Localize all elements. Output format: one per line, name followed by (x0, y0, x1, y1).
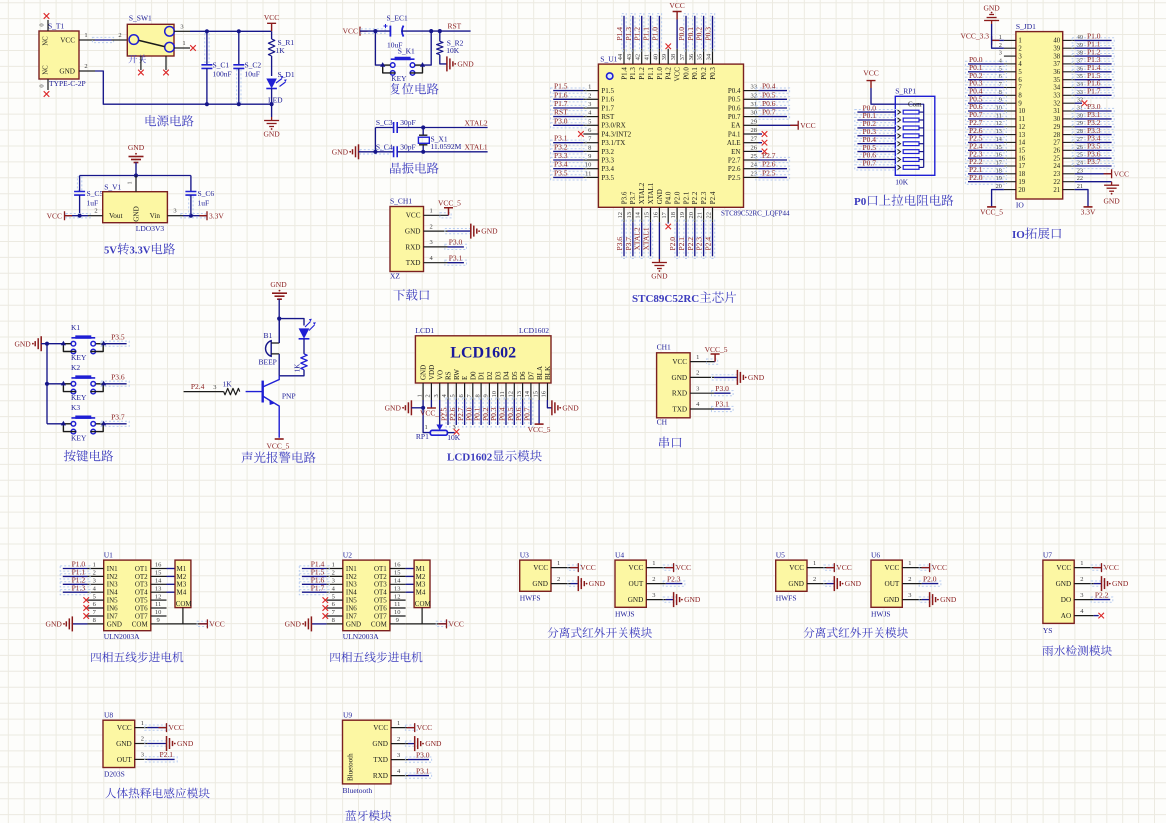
svg-text:GND: GND (128, 143, 145, 152)
download port S_CH1 (390, 207, 424, 272)
svg-text:4: 4 (1018, 61, 1022, 68)
svg-text:P1.6: P1.6 (554, 90, 568, 99)
svg-text:GND: GND (651, 272, 668, 281)
svg-text:2: 2 (430, 223, 433, 230)
svg-text:12: 12 (1018, 124, 1025, 131)
svg-text:P2.6: P2.6 (762, 160, 776, 169)
svg-text:13: 13 (626, 212, 633, 219)
svg-text:VDD: VDD (428, 365, 436, 380)
JD1 left pin 3 (1004, 55, 1016, 57)
svg-text:U8: U8 (104, 711, 113, 720)
svg-text:19: 19 (1018, 179, 1025, 186)
svg-text:2: 2 (84, 63, 87, 70)
svg-text:GND: GND (285, 620, 302, 629)
svg-text:IN2: IN2 (346, 573, 357, 581)
svg-text:P3.6: P3.6 (111, 373, 125, 382)
svg-text:1: 1 (141, 720, 144, 727)
svg-text:Bluetooth: Bluetooth (343, 786, 373, 795)
svg-text:GND: GND (46, 620, 63, 629)
COM wire to VCC (421, 608, 423, 624)
svg-text:VCC: VCC (533, 564, 548, 572)
wire gnd to LDO (135, 163, 137, 176)
svg-text:P2.6: P2.6 (728, 165, 741, 173)
svg-text:1K: 1K (276, 46, 286, 55)
U1 pin 13 OT4 (151, 591, 167, 593)
svg-text:S_C3: S_C3 (376, 118, 393, 127)
svg-text:GND: GND (372, 740, 388, 748)
svg-text:M1: M1 (177, 565, 187, 573)
svg-text:VCC: VCC (169, 723, 184, 732)
svg-text:GND: GND (656, 189, 664, 204)
RP1 resistor 6 net P0.5 (855, 149, 898, 154)
svg-text:Vout: Vout (109, 212, 122, 220)
title 复位电路 (391, 83, 400, 95)
svg-text:P2.1: P2.1 (682, 191, 690, 204)
svg-text:BEEP: BEEP (259, 357, 277, 366)
svg-text:P4.3/INT2: P4.3/INT2 (601, 130, 631, 138)
svg-text:P1.1: P1.1 (642, 27, 651, 41)
svg-text:3: 3 (180, 23, 183, 30)
LCD pin15 BLA VCC_5 flag (538, 400, 540, 424)
svg-text:GND: GND (1112, 579, 1129, 588)
crystal S_X1 11.0592M (422, 128, 424, 136)
main MCU U1 STC89C52RC_LQFP44 (598, 64, 743, 207)
svg-text:5: 5 (588, 118, 591, 125)
chip bottom pin 22 P2.4 (712, 207, 714, 222)
ULN2003A driver (104, 560, 151, 631)
svg-text:15: 15 (155, 570, 162, 577)
svg-text:P3.1: P3.1 (416, 766, 430, 775)
JD1 right pin 24 (1063, 165, 1075, 167)
svg-text:P3.0: P3.0 (416, 750, 430, 759)
electrolytic capacitor S_EC1 10uF (389, 26, 391, 37)
JD1 right pin 28 (1063, 134, 1075, 136)
svg-text:IO: IO (1012, 229, 1025, 241)
chip right pin 25 P2.7 (744, 159, 759, 161)
svg-text:P2.7: P2.7 (762, 151, 776, 160)
svg-text:1: 1 (397, 720, 400, 727)
svg-text:VCC: VCC (343, 27, 358, 36)
U1 pin 11 OT6 (151, 607, 167, 609)
svg-text:P3.1: P3.1 (715, 400, 729, 409)
svg-text:P3.1: P3.1 (554, 134, 568, 143)
svg-text:2: 2 (1080, 576, 1083, 583)
svg-text:IN3: IN3 (107, 581, 118, 589)
svg-text:HWJS: HWJS (615, 610, 635, 619)
svg-text:M4: M4 (416, 589, 426, 597)
svg-text:IN3: IN3 (346, 581, 357, 589)
svg-text:14: 14 (155, 578, 162, 585)
svg-text:P2.0: P2.0 (923, 574, 937, 583)
svg-text:2: 2 (93, 570, 96, 577)
svg-text:8: 8 (332, 617, 335, 624)
svg-text:P1.2: P1.2 (633, 27, 642, 41)
svg-text:P0.7: P0.7 (863, 159, 877, 168)
serial port CH1 (657, 353, 691, 418)
svg-text:1uF: 1uF (198, 199, 210, 208)
U1 pin 10 OT7 (151, 615, 167, 617)
svg-text:P0.3: P0.3 (709, 67, 717, 80)
RP1 resistor 2 net P0.1 (855, 117, 898, 122)
svg-text:P3.6: P3.6 (620, 191, 628, 204)
svg-text:OT1: OT1 (135, 565, 148, 573)
svg-text:VCC: VCC (629, 564, 644, 572)
svg-text:P1.0: P1.0 (650, 27, 659, 41)
JD1 left pin 15 (1004, 149, 1016, 151)
svg-text:3: 3 (93, 578, 96, 585)
svg-text:IN2: IN2 (107, 573, 118, 581)
svg-text:P0.3: P0.3 (704, 27, 713, 41)
svg-text:39: 39 (661, 54, 668, 61)
svg-text:GND: GND (385, 403, 402, 412)
JD1 right pin 33 (1063, 94, 1075, 96)
svg-text:3: 3 (588, 101, 591, 108)
svg-text:1K: 1K (294, 364, 302, 373)
svg-text:P3.0/RX: P3.0/RX (601, 122, 625, 130)
svg-text:IN6: IN6 (107, 604, 118, 612)
bottom rail wire (79, 70, 95, 72)
svg-text:P2.4: P2.4 (704, 237, 713, 251)
svg-text:IN1: IN1 (346, 565, 357, 573)
svg-text:RP1: RP1 (416, 432, 429, 441)
bluetooth module U9 (343, 720, 392, 784)
PIR module U8 D203S (103, 720, 135, 767)
svg-text:OT4: OT4 (374, 589, 387, 597)
JD1 left pin 9 (1004, 102, 1016, 104)
svg-text:37: 37 (1053, 61, 1060, 68)
svg-text:LCD1602: LCD1602 (519, 326, 549, 335)
svg-text:P3.2: P3.2 (601, 148, 614, 156)
svg-text:P3.5: P3.5 (601, 174, 614, 182)
svg-text:3: 3 (1018, 53, 1022, 60)
svg-text:LCD1602: LCD1602 (447, 452, 493, 464)
svg-text:28: 28 (751, 127, 758, 134)
svg-text:P2.5: P2.5 (762, 168, 776, 177)
svg-text:OUT: OUT (629, 580, 644, 588)
wire to LED branch (279, 319, 304, 326)
svg-text:XTAL2: XTAL2 (465, 118, 488, 127)
ULN2003A driver (343, 560, 390, 631)
svg-text:IN7: IN7 (107, 612, 118, 620)
svg-text:35: 35 (697, 54, 704, 61)
svg-text:OT3: OT3 (135, 581, 148, 589)
chip left pin 2 P1.6 (583, 98, 598, 100)
JD1 right pin 35 (1063, 79, 1075, 81)
svg-text:M1: M1 (416, 565, 426, 573)
svg-text:Vin: Vin (150, 212, 161, 220)
svg-text:IN7: IN7 (346, 612, 357, 620)
svg-text:P0.5: P0.5 (762, 90, 776, 99)
svg-text:GND: GND (672, 374, 688, 382)
svg-text:2: 2 (94, 208, 97, 215)
svg-text:YS: YS (1043, 626, 1053, 635)
svg-text:10: 10 (1018, 108, 1025, 115)
svg-text:IN1: IN1 (107, 565, 118, 573)
svg-text:11: 11 (1018, 116, 1025, 123)
wire LED to GND (271, 89, 273, 118)
ground crystal (353, 144, 359, 159)
svg-text:24: 24 (1053, 163, 1060, 170)
svg-text:VCC: VCC (863, 69, 878, 78)
svg-text:XTAL2: XTAL2 (633, 227, 642, 250)
svg-text:S_V1: S_V1 (104, 183, 121, 192)
capacitor S_C2 10uF (237, 70, 241, 102)
chip top pin 41 P1.1 (650, 49, 652, 64)
U2 pin 4 IN4 (327, 591, 343, 593)
svg-text:10K: 10K (446, 46, 460, 55)
chip left pin 5 P3.0/RX (583, 124, 598, 126)
push button K2 (47, 383, 63, 385)
power flag VCC (267, 23, 276, 31)
svg-text:11.0592M: 11.0592M (431, 142, 462, 151)
svg-text:1: 1 (1080, 560, 1083, 567)
svg-text:3: 3 (908, 592, 911, 599)
LCD pin2 VDD VCC_5 flag (430, 400, 432, 408)
svg-text:S_C2: S_C2 (245, 60, 262, 69)
svg-text:P3.7: P3.7 (624, 237, 633, 251)
title 四相五线步进电机 (330, 653, 340, 662)
svg-text:20: 20 (688, 212, 695, 219)
chip bottom pin 12 P3.6 (623, 207, 625, 222)
JD1 right pin 29 (1063, 126, 1075, 128)
svg-text:VCC: VCC (47, 211, 62, 220)
svg-text:P1.5: P1.5 (554, 82, 568, 91)
svg-text:HWJS: HWJS (871, 610, 891, 619)
svg-text:2: 2 (425, 394, 432, 397)
U1 pin 16 OT1 (151, 568, 167, 570)
capacitor S_C6 1uF (189, 197, 193, 214)
svg-text:U3: U3 (520, 551, 529, 560)
svg-text:LCD1: LCD1 (415, 326, 434, 335)
ground reset (447, 56, 453, 71)
svg-text:IN5: IN5 (107, 597, 118, 605)
svg-text:DO: DO (1061, 596, 1071, 604)
svg-text:1: 1 (182, 40, 185, 47)
svg-text:XTAL1: XTAL1 (642, 227, 651, 250)
svg-text:K2: K2 (71, 363, 80, 372)
svg-text:U1: U1 (104, 551, 113, 560)
S_T1 bottom pin 0 no-connect (47, 79, 49, 90)
chip bottom pin 21 P2.3 (703, 207, 705, 222)
svg-text:ULN2003A: ULN2003A (104, 632, 140, 641)
svg-text:P3.1/TX: P3.1/TX (601, 139, 625, 147)
svg-text:9: 9 (156, 617, 159, 624)
motor connector M1-M4 COM (175, 560, 191, 608)
svg-text:25: 25 (1053, 155, 1060, 162)
chip bottom pin 14 XTAL2 (641, 207, 643, 222)
svg-text:5: 5 (332, 593, 335, 600)
title 人体热释电感应模块 (105, 788, 116, 799)
svg-text:OT1: OT1 (374, 565, 387, 573)
svg-text:P1.5: P1.5 (601, 87, 614, 95)
svg-text:VCC: VCC (789, 564, 804, 572)
svg-text:GND: GND (332, 147, 349, 156)
svg-text:14: 14 (1018, 140, 1025, 147)
svg-text:3: 3 (696, 385, 699, 392)
svg-text:RXD: RXD (373, 772, 388, 780)
JD1 left pin 18 (1004, 173, 1016, 175)
svg-text:1: 1 (127, 181, 134, 184)
svg-text:0: 0 (39, 23, 46, 26)
svg-text:VCC: VCC (676, 563, 691, 572)
LCD pin1 GND wire and ground (405, 400, 411, 415)
svg-text:P3.0: P3.0 (449, 238, 463, 247)
svg-text:P3.5: P3.5 (554, 168, 568, 177)
svg-text:3.3V: 3.3V (130, 246, 151, 257)
U1 pin 2 IN2 (88, 575, 104, 577)
svg-text:S_SW1: S_SW1 (129, 14, 152, 23)
svg-text:IO: IO (1016, 201, 1024, 210)
chip left pin 11 P3.5 (583, 176, 598, 178)
svg-text:36: 36 (1053, 69, 1060, 76)
svg-text:35: 35 (1053, 77, 1060, 84)
JD1 left pin 16 (1004, 157, 1016, 159)
svg-text:1: 1 (696, 354, 699, 361)
IO expansion header S_JD1 (1016, 32, 1063, 199)
JD1 right pin 22 (1063, 181, 1075, 183)
svg-text:S_C1: S_C1 (213, 60, 230, 69)
svg-text:P0.1: P0.1 (686, 27, 695, 41)
svg-text:GND: GND (1103, 197, 1120, 206)
JD1 right pin 26 (1063, 149, 1075, 151)
svg-text:VCC_5: VCC_5 (705, 345, 728, 354)
svg-text:18: 18 (670, 212, 677, 219)
svg-text:S_C4: S_C4 (376, 142, 393, 151)
svg-text:XTAL1: XTAL1 (465, 143, 488, 152)
svg-text:VCC: VCC (449, 620, 464, 629)
svg-text:VCC: VCC (406, 212, 421, 220)
JD1 left pin 13 (1004, 134, 1016, 136)
chip left pin 3 P1.7 (583, 107, 598, 109)
chip bottom pin 15 XTAL1 (650, 207, 652, 222)
svg-text:2: 2 (141, 736, 144, 743)
svg-text:VO: VO (436, 370, 444, 380)
chip left pin 9 P3.3 (583, 159, 598, 161)
svg-text:LDO3V3: LDO3V3 (136, 224, 165, 233)
svg-text:1: 1 (652, 560, 655, 567)
svg-text:10K: 10K (895, 178, 909, 187)
svg-text:P1.6: P1.6 (601, 96, 614, 104)
svg-text:38: 38 (670, 54, 677, 61)
chip top pin 39 P4.2 (667, 49, 669, 64)
svg-text:33: 33 (1053, 93, 1060, 100)
svg-text:VCC: VCC (1104, 563, 1119, 572)
svg-text:9: 9 (396, 617, 399, 624)
chip top pin 40 P1.0 (658, 49, 660, 64)
svg-text:RXD: RXD (672, 390, 687, 398)
svg-text:16: 16 (155, 562, 162, 569)
svg-text:EN: EN (731, 148, 740, 156)
switch bottom pins no-connect (140, 56, 142, 70)
svg-text:23: 23 (1053, 171, 1060, 178)
chip right pin 31 P0.6 (744, 107, 759, 109)
chip right pin 32 P0.5 (744, 98, 759, 100)
U1 pin 14 OT3 (151, 583, 167, 585)
svg-text:13: 13 (516, 391, 523, 398)
svg-text:5: 5 (1018, 69, 1022, 76)
svg-text:P1.7: P1.7 (1087, 87, 1101, 96)
COM wire to VCC (182, 608, 184, 624)
svg-text:P0: P0 (854, 196, 867, 208)
svg-text:0: 0 (39, 84, 46, 87)
svg-text:VCC: VCC (885, 564, 900, 572)
svg-text:S_C5: S_C5 (87, 189, 104, 198)
svg-text:29: 29 (1053, 124, 1060, 131)
svg-text:P0.1: P0.1 (691, 67, 699, 80)
JD1 left pin 20 (1004, 189, 1016, 191)
svg-text:34: 34 (706, 53, 713, 60)
svg-text:ULN2003A: ULN2003A (343, 632, 379, 641)
title 按键电路 (64, 450, 76, 462)
JD1 right pin 27 (1063, 141, 1075, 143)
U2 pin 6 IN6 (327, 607, 343, 609)
JD1 right pin 32 (1063, 102, 1075, 104)
svg-text:GND: GND (845, 579, 862, 588)
svg-text:RST: RST (554, 108, 568, 117)
svg-text:GND: GND (14, 339, 31, 348)
U1 pin 1 IN1 (88, 568, 104, 570)
svg-text:9: 9 (1018, 100, 1022, 107)
title 四相五线步进电机 (91, 653, 101, 662)
RP1 resistor 1 net P0.0 (855, 110, 898, 115)
title 蓝牙模块 (346, 810, 357, 820)
svg-text:P2.3: P2.3 (667, 574, 681, 583)
svg-text:11: 11 (499, 391, 506, 397)
svg-text:VCC_5: VCC_5 (267, 442, 290, 451)
svg-text:P0.5: P0.5 (728, 96, 741, 104)
svg-text:M3: M3 (177, 581, 187, 589)
svg-text:100nF: 100nF (213, 70, 232, 79)
svg-text:44: 44 (617, 53, 624, 60)
svg-text:5V: 5V (104, 246, 117, 257)
svg-text:P1.7: P1.7 (601, 104, 614, 112)
svg-text:2: 2 (332, 570, 335, 577)
JD1 right pin 25 (1063, 157, 1075, 159)
chip bottom pin 13 P3.7 (632, 207, 634, 222)
capacitor S_C1 100nF (205, 34, 209, 62)
svg-text:40: 40 (1053, 38, 1060, 45)
JD1 left pin 8 (1004, 94, 1016, 96)
svg-text:P0.2: P0.2 (695, 27, 704, 41)
switch pin3 wire to VCC rail (174, 30, 190, 32)
svg-text:XTAL2: XTAL2 (638, 182, 646, 204)
svg-text:P1.4: P1.4 (620, 67, 628, 80)
chip bottom pin 20 P2.2 (694, 207, 696, 222)
svg-text:30: 30 (1053, 116, 1060, 123)
svg-text:7: 7 (1018, 85, 1022, 92)
motor connector M1-M4 COM (414, 560, 430, 608)
svg-text:P3.5: P3.5 (111, 333, 125, 342)
connector S_T1 TYPE-C-2P (39, 31, 79, 79)
JD1 left pin 14 (1004, 141, 1016, 143)
svg-text:P3.6: P3.6 (615, 237, 624, 251)
svg-text:16: 16 (652, 211, 659, 218)
switch S_SW1 (112, 39, 128, 41)
title 晶振电路 (390, 163, 401, 174)
chip right pin 29 EA (744, 124, 759, 126)
capacitor S_C5 1uF (77, 177, 81, 190)
svg-text:VCC: VCC (836, 563, 851, 572)
svg-text:VCC: VCC (669, 1, 684, 10)
potentiometer RP1 10K (430, 430, 447, 435)
svg-text:17: 17 (661, 211, 668, 218)
push button K3 (47, 423, 63, 425)
svg-text:VCC: VCC (209, 620, 224, 629)
svg-text:GND: GND (107, 620, 122, 628)
svg-text:KEY: KEY (391, 74, 407, 83)
svg-text:P3.0: P3.0 (554, 116, 568, 125)
svg-text:P1.4: P1.4 (615, 27, 624, 41)
